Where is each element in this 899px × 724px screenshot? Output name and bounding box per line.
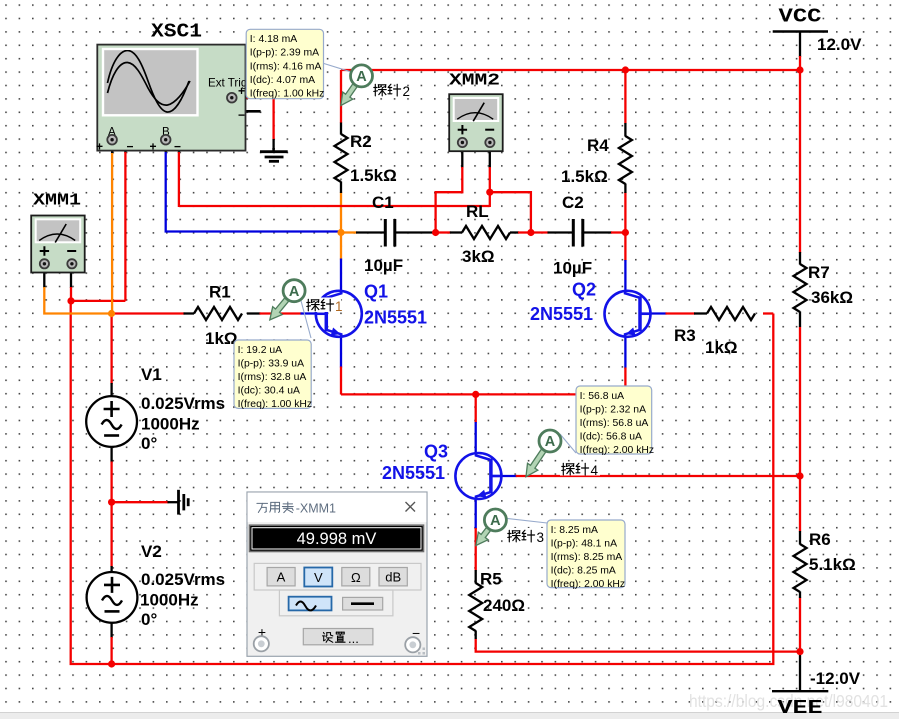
wire R1 right / Q1 base [247, 312, 261, 314]
svg-text:R5: R5 [480, 570, 502, 589]
svg-text:0.025Vrms: 0.025Vrms [141, 570, 225, 589]
svg-text:0.025Vrms: 0.025Vrms [141, 394, 225, 413]
svg-text:+: + [150, 140, 157, 154]
svg-text:Q3: Q3 [424, 442, 448, 462]
svg-text:I(p-p): 48.1 nA: I(p-p): 48.1 nA [551, 538, 617, 549]
svg-text:+: + [238, 84, 245, 98]
button 设置... [303, 629, 373, 645]
svg-text:R1: R1 [209, 283, 231, 302]
wire top VCC rail [341, 69, 800, 71]
svg-text:I(rms): 32.8 uA: I(rms): 32.8 uA [238, 372, 307, 383]
multimeter dialog 万用表-XMM1 [247, 492, 427, 656]
node R4 top junction [622, 66, 629, 73]
wire VCC stem [799, 32, 801, 58]
svg-text:2: 2 [403, 84, 411, 99]
svg-text:I(dc): 8.25 mA: I(dc): 8.25 mA [551, 566, 616, 577]
wire XMM2 plus lead [461, 147, 463, 169]
wire XMM1 minus lead [70, 268, 72, 288]
svg-text:I(p-p): 2.39 mA: I(p-p): 2.39 mA [250, 48, 319, 59]
probe leader lines [301, 63, 576, 523]
wire Ext Trig minus stub [234, 102, 261, 112]
wire R6 bottom [799, 597, 801, 651]
svg-text:I(freq): 1.00 kHz: I(freq): 1.00 kHz [250, 89, 324, 100]
wire C2 right lead [584, 231, 612, 233]
svg-text:VCC: VCC [779, 6, 822, 28]
node Q3 base/R7R6 junction [796, 472, 803, 479]
wire Q3 base rail [491, 475, 517, 477]
svg-text:V2: V2 [141, 542, 162, 561]
wire Q2 base lead [640, 312, 667, 314]
svg-text:240Ω: 240Ω [483, 596, 525, 615]
wire RL right lead [510, 231, 519, 233]
node R1/V1 junction [108, 310, 115, 317]
wire XMM1 plus lead [43, 268, 45, 288]
svg-text:I(freq): 2.00 kHz: I(freq): 2.00 kHz [580, 445, 655, 456]
resistor R6 [794, 544, 807, 592]
probe 探针4 [560, 462, 600, 476]
svg-text:I: 8.25 mA: I: 8.25 mA [551, 525, 598, 536]
svg-text:C2: C2 [562, 193, 584, 212]
button Ω [342, 568, 370, 586]
svg-text:I(rms): 56.8 uA: I(rms): 56.8 uA [580, 418, 649, 429]
wire C2 left lead [531, 231, 549, 233]
svg-text:R4: R4 [587, 136, 609, 155]
svg-text:2N5551: 2N5551 [382, 463, 445, 483]
node XMM2 minus junction [486, 189, 493, 196]
node VCC junction [796, 66, 803, 73]
wire XMM2 minus lead [489, 147, 491, 169]
svg-text:I(freq): 1.00 kHz: I(freq): 1.00 kHz [238, 399, 313, 410]
svg-text:Ω: Ω [351, 570, 361, 585]
svg-text:4: 4 [591, 463, 599, 478]
svg-text:10µF: 10µF [553, 259, 592, 278]
svg-text:A: A [277, 570, 286, 585]
node RL/C2 junction [527, 229, 534, 236]
AC source V2 [87, 572, 138, 623]
multimeter XMM2 icon [449, 94, 503, 151]
svg-text:R6: R6 [809, 530, 831, 549]
svg-text:I: 4.18 mA: I: 4.18 mA [250, 34, 297, 45]
svg-text:I(rms): 4.16 mA: I(rms): 4.16 mA [250, 61, 322, 72]
probe 探针2 [341, 84, 357, 106]
svg-text:I(dc): 4.07 mA: I(dc): 4.07 mA [250, 75, 315, 86]
tooltip probe1 readings [234, 340, 311, 408]
svg-text:V: V [314, 570, 323, 585]
node XMM1 minus junction [67, 297, 74, 304]
dialog mode panel [254, 563, 421, 590]
resistor R5 [469, 583, 482, 631]
svg-text:XMM1: XMM1 [33, 192, 81, 211]
wire V1 top [110, 314, 112, 385]
svg-text:I(dc): 30.4 uA: I(dc): 30.4 uA [238, 386, 300, 397]
button A [267, 568, 295, 586]
svg-text:dB: dB [385, 570, 401, 585]
power VEE [772, 690, 828, 692]
wire R1 left [112, 312, 185, 314]
svg-text:XMM2: XMM2 [449, 72, 500, 91]
transistor Q1 [316, 291, 362, 337]
svg-text:5.1kΩ: 5.1kΩ [809, 555, 856, 574]
svg-text:1.5kΩ: 1.5kΩ [561, 167, 608, 186]
svg-text:-12.0V: -12.0V [810, 669, 861, 688]
svg-text:36kΩ: 36kΩ [811, 288, 853, 307]
wire scope A- riser [117, 140, 126, 153]
wire right rail mid [799, 327, 801, 476]
resistor RL [462, 226, 510, 239]
svg-text:0°: 0° [141, 434, 157, 453]
resistor R7 [794, 264, 807, 312]
svg-text:I: 19.2 uA: I: 19.2 uA [238, 345, 283, 356]
wire R2 bottom to node [340, 192, 342, 233]
svg-text:1.5kΩ: 1.5kΩ [350, 166, 397, 185]
capacitor C1 [384, 219, 387, 247]
wire Ext Trig to ground [236, 98, 274, 140]
dialog resize grip [418, 648, 425, 655]
wire scope A+ riser [111, 144, 113, 154]
wire VEE stem [799, 652, 801, 691]
svg-text:RL: RL [466, 202, 489, 221]
svg-text:I(dc): 56.8 uA: I(dc): 56.8 uA [580, 432, 642, 443]
svg-text:R7: R7 [808, 263, 830, 282]
svg-text:1kΩ: 1kΩ [705, 338, 738, 357]
wire scope B+ stub [165, 144, 167, 152]
node V1 ground junction [108, 499, 115, 506]
wire C1 left leads [341, 231, 357, 233]
svg-text:A: A [289, 284, 300, 300]
node V2 bottom junction [108, 660, 115, 667]
svg-text:−: − [127, 140, 134, 154]
svg-text:R2: R2 [350, 132, 372, 151]
wire R4 top [624, 70, 626, 123]
node emitter/Q3 junction [472, 391, 479, 398]
resistor R2 [335, 134, 348, 182]
wire XMM2 minus to RL [490, 192, 531, 232]
node C2/R4/Q2 junction [622, 229, 629, 236]
wire R5 to VEE rail [476, 639, 800, 652]
wire R3 left lead [694, 312, 707, 314]
svg-text:I(p-p): 33.9 uA: I(p-p): 33.9 uA [238, 358, 304, 369]
svg-text:10µF: 10µF [364, 256, 403, 275]
svg-text:A: A [356, 69, 367, 85]
wire R3 right lead [763, 312, 773, 314]
button DC [343, 597, 383, 610]
node C1/RL junction [432, 229, 439, 236]
svg-text:C1: C1 [372, 193, 394, 212]
resistor R4 [619, 136, 632, 184]
transistor Q2 [605, 291, 651, 337]
button dB [379, 568, 407, 586]
wire V1 bottom [110, 447, 112, 463]
wire V2 bottom [110, 623, 112, 638]
wire emitter rail [341, 393, 625, 395]
tooltip probe3 readings [547, 520, 625, 588]
svg-text:3: 3 [537, 530, 545, 545]
button V (selected) [304, 568, 332, 587]
ground (scope) [272, 148, 275, 152]
wire ground stub [112, 501, 169, 503]
wire R4 bottom [624, 192, 626, 233]
wire scope B- riser [170, 140, 179, 153]
svg-text:12.0V: 12.0V [817, 35, 862, 54]
wire Q2 collector [624, 233, 626, 262]
wire bottom return rail [71, 301, 774, 664]
AC source V1 [86, 396, 137, 447]
svg-text:1000Hz: 1000Hz [141, 415, 200, 434]
svg-text:-XMM1: -XMM1 [296, 502, 336, 516]
power VCC [773, 30, 828, 32]
resistor R1 [194, 307, 242, 320]
transistor Q3 [455, 453, 501, 499]
wire R2 top drop [340, 70, 342, 123]
svg-text:I(p-p): 2.32 nA: I(p-p): 2.32 nA [580, 404, 646, 415]
svg-text:2N5551: 2N5551 [530, 304, 593, 324]
wire C1 right lead [396, 231, 436, 233]
wire Q3 collector [475, 394, 477, 423]
svg-text:1: 1 [335, 299, 343, 314]
node C1/R2/Q1 collector [337, 229, 344, 236]
svg-text:1000Hz: 1000Hz [140, 591, 199, 610]
dialog display 49.998 mV [250, 525, 424, 551]
svg-text:XSC1: XSC1 [151, 21, 202, 43]
capacitor C2 [572, 219, 575, 247]
wire XMM2 output rail y206 [179, 205, 490, 207]
probe 探针1 [305, 298, 341, 313]
svg-text:A: A [490, 513, 501, 529]
svg-text:−: − [174, 140, 181, 154]
svg-text:2N5551: 2N5551 [364, 308, 427, 328]
multimeter XMM1 icon [31, 216, 84, 273]
svg-text:1kΩ: 1kΩ [205, 329, 238, 348]
svg-text:I: 56.8 uA: I: 56.8 uA [580, 391, 625, 402]
svg-text:3kΩ: 3kΩ [462, 247, 495, 266]
svg-text:A: A [545, 434, 556, 450]
svg-text:V1: V1 [141, 365, 162, 384]
svg-text:Q1: Q1 [364, 282, 388, 302]
svg-text:...: ... [348, 631, 359, 646]
tooltip probe4 readings [576, 386, 652, 454]
svg-text:I(rms): 8.25 mA: I(rms): 8.25 mA [551, 552, 623, 563]
wire Q1 collector [340, 233, 342, 260]
wire scope B+ to C1 node [166, 152, 339, 232]
tooltip probe2 readings [246, 29, 323, 98]
wire right rail lower [799, 476, 801, 532]
svg-text:R3: R3 [674, 326, 696, 345]
svg-text:I(freq): 2.00 kHz: I(freq): 2.00 kHz [551, 579, 626, 590]
bottom window bar [0, 712, 899, 719]
ground (V1/V2 midpoint, rotated) [179, 490, 189, 515]
oscilloscope XSC1 [97, 45, 245, 151]
resistor R3 [707, 307, 755, 320]
node R6/VEE junction [796, 648, 803, 655]
svg-text:−: − [238, 108, 245, 122]
wire Q2 emitter [624, 336, 626, 369]
wire Q1 emitter [340, 336, 342, 368]
svg-text:0°: 0° [141, 610, 157, 629]
svg-text:+: + [96, 140, 103, 154]
svg-text:Q2: Q2 [572, 280, 596, 300]
button AC (selected) [289, 597, 332, 611]
wire V2 top [110, 502, 112, 567]
wire right rail upper [799, 70, 801, 253]
svg-text:49.998 mV: 49.998 mV [297, 530, 377, 548]
wire RL left lead [436, 231, 451, 233]
probe 探针3 [506, 528, 546, 543]
svg-text:VEE: VEE [778, 697, 823, 719]
wire Q3 emitter [475, 499, 477, 529]
